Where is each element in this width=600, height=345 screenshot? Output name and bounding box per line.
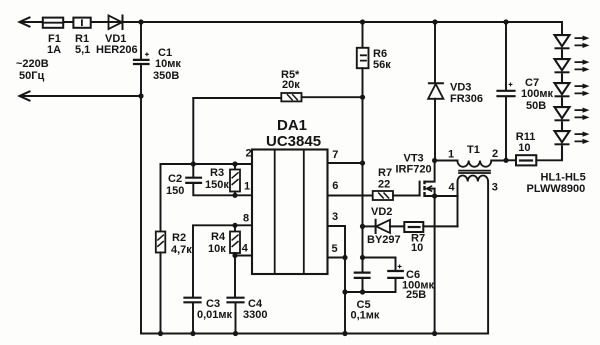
svg-text:4,7к: 4,7к: [171, 244, 192, 256]
svg-text:DA1: DA1: [277, 117, 307, 134]
svg-text:2: 2: [246, 148, 252, 160]
svg-text:R2: R2: [172, 232, 186, 244]
svg-text:10: 10: [518, 142, 530, 154]
svg-text:7: 7: [332, 149, 338, 161]
svg-text:10к: 10к: [208, 243, 226, 255]
svg-text:6: 6: [332, 180, 338, 192]
svg-text:50Гц: 50Гц: [19, 70, 44, 82]
svg-text:3300: 3300: [243, 309, 267, 321]
svg-text:R4: R4: [211, 231, 226, 243]
svg-text:T1: T1: [467, 144, 480, 156]
svg-text:1A: 1A: [47, 44, 61, 56]
svg-text:4: 4: [449, 182, 456, 194]
svg-text:150к: 150к: [205, 179, 229, 191]
svg-text:5: 5: [332, 243, 338, 255]
svg-text:8: 8: [243, 213, 249, 225]
svg-text:3: 3: [492, 182, 498, 194]
svg-text:PLWW8900: PLWW8900: [527, 183, 586, 195]
svg-text:HL1-HL5: HL1-HL5: [541, 172, 586, 184]
svg-text:4: 4: [242, 243, 249, 255]
svg-text:56к: 56к: [373, 59, 391, 71]
svg-text:FR306: FR306: [450, 93, 483, 105]
svg-text:10: 10: [411, 242, 423, 254]
svg-text:100мк: 100мк: [521, 88, 553, 100]
svg-text:1: 1: [448, 148, 454, 160]
svg-text:0,01мк: 0,01мк: [197, 309, 233, 321]
svg-text:3: 3: [332, 211, 338, 223]
svg-text:2: 2: [492, 148, 498, 160]
svg-text:1: 1: [244, 181, 250, 193]
svg-text:5,1: 5,1: [75, 44, 90, 56]
svg-text:IRF720: IRF720: [396, 164, 432, 176]
svg-text:R7: R7: [378, 167, 392, 179]
svg-text:VD2: VD2: [371, 206, 392, 218]
svg-text:UC3845: UC3845: [266, 133, 321, 150]
svg-text:VD3: VD3: [450, 82, 471, 94]
svg-text:BY297: BY297: [367, 234, 401, 246]
svg-text:25В: 25В: [406, 289, 426, 301]
svg-text:22: 22: [378, 179, 390, 191]
svg-text:C2: C2: [168, 173, 182, 185]
svg-text:20к: 20к: [282, 79, 300, 91]
svg-text:R3: R3: [210, 167, 224, 179]
svg-text:0,1мк: 0,1мк: [351, 310, 380, 322]
svg-text:150: 150: [166, 185, 184, 197]
svg-text:50В: 50В: [526, 100, 546, 112]
svg-text:HER206: HER206: [96, 44, 138, 56]
svg-text:350В: 350В: [153, 70, 179, 82]
svg-text:~220В: ~220В: [16, 58, 49, 70]
svg-text:10мк: 10мк: [155, 58, 181, 70]
